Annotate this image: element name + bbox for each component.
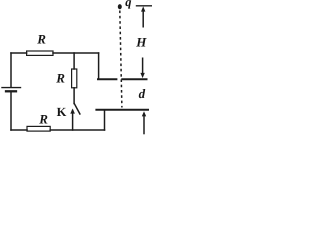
charge q dot <box>118 4 122 9</box>
wire middle branch lower to switch contact <box>73 88 75 104</box>
wire bottom rail right segment <box>50 129 104 131</box>
svg-text:K: K <box>57 105 67 119</box>
svg-text:q: q <box>125 0 131 9</box>
wire top rail left segment <box>11 52 27 54</box>
tick mark at q level (top of H dimension) <box>136 5 152 7</box>
svg-text:R: R <box>36 32 46 47</box>
svg-text:H: H <box>135 34 147 49</box>
wire bottom rail left segment <box>11 129 27 131</box>
d dimension arrow (points up to bottom plate from below) <box>142 111 146 134</box>
H dimension lower arrow (points down to top plate) <box>140 58 144 79</box>
battery E long plate <box>2 87 21 89</box>
wire right branch vertical down to top plate <box>98 53 100 79</box>
H dimension upper arrow (points up to tick) <box>141 6 145 27</box>
capacitor top plate right segment <box>121 78 147 80</box>
resistor R1 body (top) <box>27 51 53 55</box>
svg-text:d: d <box>139 86 146 101</box>
wire top-left vertical (battery + to top rail) <box>10 53 12 87</box>
wire middle branch upper <box>73 53 75 69</box>
switch K lower contact arrowhead <box>70 109 75 114</box>
capacitor top plate left segment <box>97 78 117 80</box>
wire top rail right segment <box>53 52 99 54</box>
wire battery - to bottom-left corner <box>10 92 12 131</box>
dashed fall trajectory of q <box>120 11 122 108</box>
capacitor bottom plate <box>95 109 149 111</box>
battery E short plate <box>6 90 16 92</box>
switch K lower lead <box>72 111 74 131</box>
resistor R2 body (middle, vertical) <box>72 69 77 88</box>
resistor R3 body (bottom) <box>27 126 50 131</box>
svg-text:R: R <box>55 70 65 85</box>
wire lead from bottom plate down to bottom rail <box>104 110 106 130</box>
svg-text:R: R <box>38 112 48 127</box>
switch K blade (open) <box>74 104 80 114</box>
